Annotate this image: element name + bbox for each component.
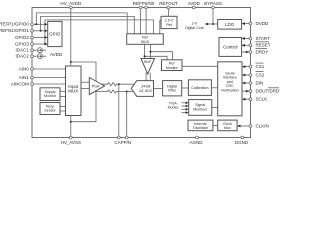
svg-text:CS2: CS2 (256, 72, 265, 77)
svg-text:CAPP/N: CAPP/N (114, 140, 131, 145)
svg-text:MUX: MUX (68, 89, 78, 94)
svg-text:GPIO2: GPIO2 (15, 35, 29, 40)
svg-text:BYPASS: BYPASS (204, 1, 222, 6)
svg-text:START: START (256, 36, 271, 41)
svg-text:Oscillator: Oscillator (193, 126, 209, 130)
svg-text:2.5-V: 2.5-V (165, 18, 174, 22)
svg-text:PGA: PGA (169, 101, 177, 105)
svg-text:AIN1: AIN1 (19, 75, 30, 80)
svg-text:Internal: Internal (194, 122, 206, 126)
svg-text:HV_AVSS: HV_AVSS (61, 140, 81, 145)
svg-text:Digital Core: Digital Core (185, 26, 204, 30)
svg-text:DOUT/DRDY: DOUT/DRDY (256, 89, 281, 94)
svg-text:DIN: DIN (256, 80, 264, 85)
svg-text:PGA: PGA (92, 84, 100, 88)
svg-text:REFN1/GPIO1: REFN1/GPIO1 (0, 28, 29, 33)
svg-text:2-V: 2-V (192, 22, 198, 26)
svg-text:Monitor: Monitor (44, 94, 57, 98)
svg-text:Monitors: Monitors (193, 108, 207, 112)
svg-text:Control: Control (223, 44, 238, 49)
svg-text:Signal: Signal (195, 103, 205, 107)
svg-text:CLKIN: CLKIN (256, 123, 269, 128)
svg-text:ΔΣ ADC: ΔΣ ADC (139, 89, 153, 93)
svg-text:Ref: Ref (169, 61, 175, 65)
svg-text:Sensor: Sensor (44, 109, 56, 113)
svg-text:24-Bit: 24-Bit (141, 84, 150, 88)
svg-text:LDO: LDO (225, 22, 235, 27)
svg-text:Ref: Ref (166, 23, 172, 27)
svg-text:DRDY: DRDY (256, 49, 269, 54)
svg-text:HV_AVDD: HV_AVDD (60, 1, 82, 6)
svg-text:MUX: MUX (141, 40, 150, 44)
svg-text:REFOUT: REFOUT (159, 1, 178, 6)
svg-text:Monitor: Monitor (166, 66, 179, 70)
svg-text:AINCOM: AINCOM (11, 81, 29, 86)
svg-text:RESET: RESET (256, 43, 271, 48)
svg-text:Temp: Temp (46, 104, 55, 108)
svg-text:AGND: AGND (189, 140, 203, 145)
svg-text:CS1: CS1 (256, 64, 265, 69)
svg-text:Calibration: Calibration (191, 86, 208, 90)
svg-text:Digital: Digital (167, 84, 177, 88)
svg-text:BUF: BUF (144, 60, 152, 64)
svg-text:Filter: Filter (168, 89, 177, 93)
svg-text:SCLK: SCLK (256, 97, 268, 102)
svg-text:Clock: Clock (223, 122, 232, 126)
svg-text:AIN0: AIN0 (19, 66, 30, 71)
svg-text:DGND: DGND (235, 140, 249, 145)
svg-text:Supply: Supply (45, 90, 56, 94)
svg-text:GPIO3: GPIO3 (15, 41, 29, 46)
svg-text:IDAC1: IDAC1 (16, 48, 30, 53)
svg-text:GPIO: GPIO (49, 32, 61, 37)
svg-text:Mux: Mux (224, 126, 231, 130)
svg-text:AVDD: AVDD (188, 1, 201, 6)
svg-text:AVDD: AVDD (50, 52, 63, 57)
svg-text:Verification: Verification (221, 89, 239, 93)
svg-text:DVDD: DVDD (256, 21, 270, 26)
svg-text:REFP1/GPIO0: REFP1/GPIO0 (0, 22, 29, 27)
svg-text:REFP0/N0: REFP0/N0 (133, 1, 155, 6)
svg-text:Modes: Modes (168, 106, 179, 110)
svg-text:IDAC2: IDAC2 (16, 54, 30, 59)
